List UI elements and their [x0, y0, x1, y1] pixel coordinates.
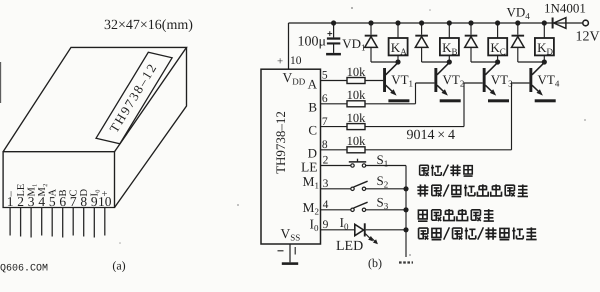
wire S1 to bus [366, 165, 406, 167]
LED indicator [355, 224, 364, 235]
svg-text:5: 5 [49, 194, 56, 209]
svg-text:3: 3 [323, 178, 329, 190]
svg-text:10: 10 [98, 194, 112, 209]
capacitor C1 100u electrolytic [333, 23, 335, 37]
ground emitter VT3 [488, 99, 509, 102]
op-amp/IC U1 TH9738-12 box [261, 69, 321, 244]
svg-text:1: 1 [7, 194, 14, 209]
svg-text:LED: LED [336, 239, 363, 254]
junction rail-relay KA [395, 20, 400, 25]
package pin name labels (rotated) [5, 183, 111, 197]
junction rail-relay KB [447, 20, 452, 25]
scan artifact left edge [0, 62, 2, 103]
wire S3 to bus [366, 209, 406, 211]
relay coil KC [497, 23, 499, 38]
package top label plate [96, 52, 172, 144]
node C pin 7 wire [321, 126, 347, 128]
svg-text:7: 7 [70, 194, 77, 209]
svg-text:8: 8 [80, 194, 87, 209]
svg-text:TH9738–12: TH9738–12 [273, 111, 288, 174]
svg-text:4: 4 [38, 194, 45, 209]
svg-text:9: 9 [323, 219, 329, 231]
junction bus M2 [403, 207, 408, 212]
svg-text:C: C [308, 122, 317, 137]
svg-text:8: 8 [322, 139, 328, 151]
svg-text:5: 5 [322, 70, 328, 82]
node collector D [542, 59, 547, 64]
svg-text:10k: 10k [347, 134, 367, 148]
wire diode anode to collector node [518, 61, 545, 63]
svg-text:6: 6 [59, 194, 66, 209]
junction cap node [331, 20, 336, 25]
diode VD (relay KB flyback) [421, 23, 423, 35]
relay coil KB [448, 23, 450, 38]
package pin numbers 1-10 [7, 194, 112, 209]
transistor VT4 9014 NPN [529, 63, 544, 96]
resistor RD 10k [347, 147, 365, 153]
node collector C [495, 59, 500, 64]
svg-text:4: 4 [323, 199, 329, 211]
wire LED to bus [366, 229, 406, 231]
wire from RA [365, 80, 383, 82]
switch S3 [351, 208, 354, 211]
switch S2 [351, 187, 354, 190]
node LE pin 2 wire [321, 165, 351, 167]
switch S1 pushbutton [351, 164, 354, 167]
svg-text:9: 9 [91, 194, 98, 209]
label bistable output select [418, 210, 427, 221]
minus mark near VSS ground [278, 250, 284, 252]
svg-text:LE: LE [301, 159, 318, 174]
bus end mark [399, 261, 413, 263]
svg-text:+: + [277, 56, 283, 68]
scan specks [351, 7, 353, 9]
svg-text:32×47×16(mm): 32×47×16(mm) [104, 18, 193, 33]
wire diode anode to collector node [422, 61, 450, 63]
ground emitter VT4 [535, 99, 556, 102]
svg-text:7: 7 [322, 116, 328, 128]
svg-text:10k: 10k [347, 88, 367, 102]
svg-text:2: 2 [323, 155, 329, 167]
node M1 pin 3 wire [321, 188, 351, 190]
diode VD (relay KC flyback) [470, 23, 472, 35]
wire +12V top rail [289, 22, 583, 24]
wire from RC [365, 126, 464, 128]
IC package 3D outline [3, 47, 186, 207]
junction rail-diode VD4 [515, 20, 520, 25]
svg-text:10k: 10k [347, 111, 367, 125]
junction rail-relay KC [495, 20, 500, 25]
wire riser to VT base (B) [415, 83, 417, 104]
junction bus I0 [403, 227, 408, 232]
label memory/erase [420, 165, 429, 176]
resistor RB 10k [347, 101, 365, 107]
relay coil KA [397, 23, 399, 38]
svg-text:1N4001: 1N4001 [544, 1, 586, 16]
diode VD (relay KD flyback) [517, 23, 519, 35]
label decode/memory/erase indicator [419, 228, 429, 240]
wire S2 to bus [366, 188, 406, 190]
svg-text:B: B [308, 100, 317, 115]
svg-text:6: 6 [322, 93, 328, 105]
svg-text:(a): (a) [112, 259, 125, 273]
terminal 12V [583, 20, 589, 26]
wire from RD [365, 149, 512, 151]
node M2 pin 4 wire [321, 209, 351, 211]
junction rail-diode VD3 [468, 20, 473, 25]
resistor RC 10k [347, 124, 365, 130]
svg-text:2: 2 [17, 194, 24, 209]
diode VD5 1N4001 series [552, 18, 554, 29]
transistor VT2 9014 NPN [434, 63, 449, 96]
ground emitter VT2 [440, 99, 461, 102]
svg-text:100μ: 100μ [298, 34, 327, 49]
wire riser to VT base (D) [511, 83, 513, 150]
svg-text:9014 × 4: 9014 × 4 [407, 128, 456, 143]
svg-text:Q606.COM: Q606.COM [0, 264, 48, 275]
relay coil KD [543, 23, 545, 38]
svg-text:12V: 12V [576, 30, 600, 45]
node D pin 8 wire [321, 149, 347, 151]
junction rail-diode VD2 [419, 20, 424, 25]
svg-text:(b): (b) [368, 256, 382, 270]
svg-text:A: A [308, 76, 318, 91]
package pins 1-10 [10, 208, 105, 238]
junction rail-relay KD [542, 20, 547, 25]
ground emitter VT1 [388, 99, 409, 102]
transistor VT3 9014 NPN [483, 63, 498, 96]
node B pin 6 wire [321, 103, 347, 105]
label non-lock/momentary output select [417, 184, 428, 196]
wire rail drop to pin 10 [288, 23, 290, 69]
diode VD (relay KA flyback) [370, 23, 372, 35]
transistor VT1 9014 NPN [383, 63, 398, 96]
svg-text:10k: 10k [347, 65, 367, 79]
resistor RA 10k [347, 78, 365, 84]
junction rail-diode VD1 [368, 20, 373, 25]
wire riser to VT base (C) [463, 83, 465, 127]
ground below IC [289, 244, 291, 262]
svg-text:3: 3 [28, 194, 35, 209]
junction bus M1 [403, 186, 408, 191]
wire select bus [405, 166, 407, 258]
node collector A [395, 59, 400, 64]
wire diode anode to collector node [471, 61, 498, 63]
node collector B [447, 59, 452, 64]
node I0 pin 9 wire [321, 229, 355, 231]
wire from RB [365, 103, 416, 105]
label + polarity [327, 33, 332, 35]
node A pin 5 wire [321, 80, 347, 82]
wire diode anode to collector node [371, 61, 398, 63]
svg-text:10: 10 [290, 55, 302, 67]
